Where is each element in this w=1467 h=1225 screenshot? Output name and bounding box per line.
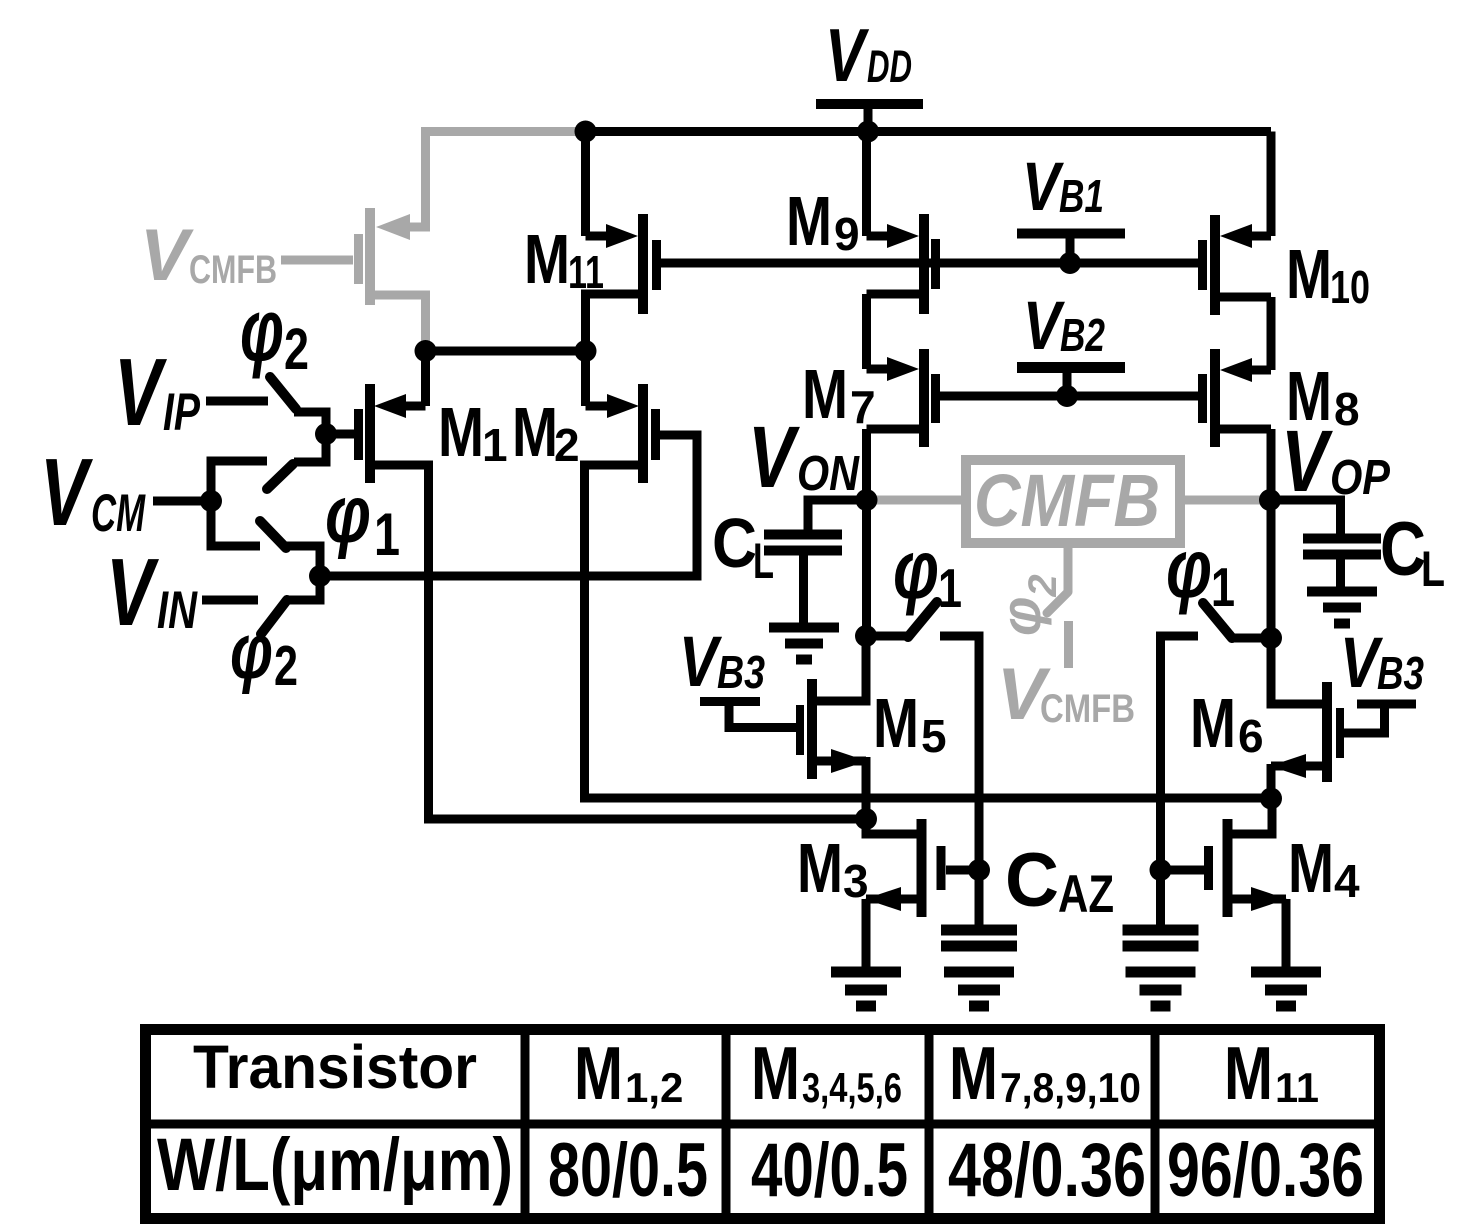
svg-text:CMFB: CMFB xyxy=(974,459,1160,542)
svg-text:1: 1 xyxy=(482,419,508,471)
wire CMFB block bottom lead (gray) xyxy=(1064,543,1073,592)
table row separator xyxy=(145,1120,1380,1129)
node VB1 junction xyxy=(1059,252,1081,274)
wire node A (phi2 output to M1 gate) xyxy=(294,412,326,462)
svg-text:φ: φ xyxy=(893,522,939,616)
svg-text:10: 10 xyxy=(1330,261,1370,313)
svg-text:M: M xyxy=(873,684,919,762)
svg-text:M: M xyxy=(797,829,843,907)
node source rail right junction xyxy=(1260,788,1282,810)
transistor M2 xyxy=(586,384,661,483)
transistor MCMFB (gray tail device) xyxy=(354,208,426,344)
svg-text:4: 4 xyxy=(1334,855,1360,907)
svg-text:M: M xyxy=(512,393,558,471)
svg-text:3: 3 xyxy=(843,855,869,907)
svg-text:M: M xyxy=(524,220,570,298)
svg-text:IN: IN xyxy=(157,581,198,640)
wire M4 drain jog from source rail xyxy=(1232,798,1272,834)
node A (M1 gate) junction xyxy=(315,423,337,445)
svg-text:M: M xyxy=(1286,357,1332,435)
node VON junction xyxy=(856,489,878,511)
svg-text:DD: DD xyxy=(867,41,912,92)
node CAZ left junction xyxy=(968,859,990,881)
wire phi1 left fixed contact down to CAZ node xyxy=(940,636,979,927)
svg-text:7,8,9,10: 7,8,9,10 xyxy=(1000,1064,1141,1111)
svg-text:C: C xyxy=(712,504,757,582)
transistor M7 xyxy=(867,349,941,447)
svg-text:W/L(μm/μm): W/L(μm/μm) xyxy=(157,1123,513,1206)
power VDD supply symbol xyxy=(816,99,923,128)
ground (M4 source) xyxy=(1251,967,1321,1012)
ground (left CAZ) xyxy=(944,967,1014,1012)
transistor M3 xyxy=(865,819,946,917)
svg-text:φ: φ xyxy=(1166,521,1212,615)
wire CMFB block left lead (gray) to VON xyxy=(866,496,966,505)
svg-text:8: 8 xyxy=(1334,383,1360,435)
wire VDD rail xyxy=(586,127,1272,136)
svg-text:OP: OP xyxy=(1330,451,1390,505)
svg-text:11: 11 xyxy=(1275,1064,1319,1111)
wire M5 source to autozero node xyxy=(862,757,871,824)
node VON-phi1 junction xyxy=(855,625,877,647)
transistor M8 xyxy=(1198,349,1271,447)
ground (right CL) xyxy=(1307,587,1377,629)
switch phi2 (gray, vertical) lever xyxy=(1047,592,1068,613)
svg-text:M: M xyxy=(949,1031,998,1115)
node B (M2 gate line) junction xyxy=(309,565,331,587)
wire tail node (M11 drain to MCMFB drain, sources of M1/M2) xyxy=(426,347,586,356)
switch phi2 (VIN) lever xyxy=(261,600,287,634)
svg-text:M: M xyxy=(438,393,484,471)
wire M4 source to ground xyxy=(1282,899,1291,968)
svg-text:φ: φ xyxy=(325,469,371,560)
transistor M4 xyxy=(1204,819,1287,917)
wire M3 source to ground xyxy=(862,899,871,968)
node VDD junction xyxy=(857,121,879,143)
node CAZ right junction xyxy=(1150,859,1172,881)
svg-text:V: V xyxy=(106,539,159,646)
switch phi1 (VCM upper) lever xyxy=(267,464,293,489)
svg-text:V: V xyxy=(825,13,870,97)
table column separator 3 xyxy=(925,1029,934,1219)
wire VOP node down to phi1 node and M6 drain xyxy=(1267,500,1276,642)
svg-text:1,2: 1,2 xyxy=(625,1064,683,1111)
table frame xyxy=(146,1030,1380,1219)
svg-text:M: M xyxy=(786,182,832,260)
svg-text:ON: ON xyxy=(797,447,860,501)
switch phi1 (VCM lower) lever xyxy=(260,521,286,548)
svg-text:B1: B1 xyxy=(1059,170,1104,222)
wire M8 drain to VOP node xyxy=(1267,429,1276,505)
capacitor CL (left) xyxy=(764,530,842,625)
svg-text:CM: CM xyxy=(91,484,146,543)
svg-text:AZ: AZ xyxy=(1058,865,1114,924)
svg-text:7: 7 xyxy=(850,381,876,433)
wire M7 drain to VON node xyxy=(862,429,871,505)
svg-text:V: V xyxy=(140,215,194,296)
node VOP-phi1 junction xyxy=(1260,627,1282,649)
wire M1 gate xyxy=(326,430,354,439)
wire M9 drain to M7 source xyxy=(862,294,871,369)
svg-text:Transistor: Transistor xyxy=(193,1033,477,1101)
svg-text:11: 11 xyxy=(568,246,604,298)
wire M7/M8 gate line to VB2 xyxy=(936,392,1202,401)
wire M11/M9 gate line to VB1 and M10 gate xyxy=(656,259,1202,268)
svg-text:V: V xyxy=(114,339,167,446)
power VB1 supply symbol xyxy=(1017,229,1125,257)
wire M2 drain down to source rail xyxy=(585,465,1268,798)
transistor M6 xyxy=(1270,682,1344,782)
wire VIN input lead xyxy=(202,596,258,605)
wire gray source from VDD rail to CMFB transistor xyxy=(403,132,584,228)
wire node B (phi1 output down to VIN line) xyxy=(285,546,320,600)
wire M5 drain up to phi1 node xyxy=(814,636,866,701)
wire VB3 left to M5 gate xyxy=(700,697,760,706)
svg-text:40/0.5: 40/0.5 xyxy=(751,1128,908,1213)
node tail right junction xyxy=(575,340,597,362)
wire M10 drain to M8 source xyxy=(1267,297,1276,370)
wire M2 source from tail xyxy=(581,351,590,406)
transistor M5 xyxy=(796,679,867,779)
wire VCM input lead xyxy=(153,497,211,506)
svg-text:5: 5 xyxy=(921,710,947,762)
wire M6 source to source rail xyxy=(1267,764,1276,803)
svg-text:φ: φ xyxy=(240,280,284,379)
node VCM junction xyxy=(200,490,222,512)
svg-text:M: M xyxy=(1224,1031,1273,1115)
wire M3 drain jog from autozero node xyxy=(866,819,917,834)
wire VCMFB gate lead (gray) xyxy=(281,256,353,265)
svg-text:1: 1 xyxy=(374,501,400,568)
wire VON node down to phi1 node and M5 drain xyxy=(862,500,871,640)
svg-text:2: 2 xyxy=(554,419,580,471)
switch phi1 (VOP autozero) lever xyxy=(1203,603,1232,638)
wire M3 gate to CAZ xyxy=(946,866,979,875)
table column separator 2 xyxy=(722,1029,731,1219)
svg-text:80/0.5: 80/0.5 xyxy=(548,1128,708,1213)
wire right phi1 stub from VOP column xyxy=(1232,634,1271,643)
capacitor CAZ (left) xyxy=(941,925,1017,952)
wire VON node to CL xyxy=(808,500,867,532)
capacitor CAZ (right) xyxy=(1123,925,1199,952)
wire VIP input lead xyxy=(206,397,268,406)
transistor M1 xyxy=(354,384,426,483)
ground (left CL) xyxy=(769,623,839,665)
svg-text:2: 2 xyxy=(284,317,309,382)
node tail left junction xyxy=(415,340,437,362)
node VB2 junction xyxy=(1056,385,1078,407)
switch phi1 (VON autozero) lever xyxy=(908,602,937,637)
svg-text:B3: B3 xyxy=(1377,647,1424,699)
node VOP junction xyxy=(1259,489,1281,511)
svg-text:9: 9 xyxy=(834,208,860,260)
svg-text:B2: B2 xyxy=(1060,309,1105,361)
svg-text:V: V xyxy=(748,409,801,506)
wire phi1 right fixed contact down to CAZ node xyxy=(1161,636,1199,927)
svg-text:L: L xyxy=(1421,541,1445,597)
svg-text:M: M xyxy=(574,1031,623,1115)
node autozero left junction xyxy=(855,808,877,830)
ground (M3 source) xyxy=(831,967,901,1012)
wire VCM branch xyxy=(211,461,267,546)
wire input line B to M2 gate xyxy=(320,435,697,576)
wire CMFB block right lead (gray) to VOP xyxy=(1180,496,1270,505)
table column separator 4 xyxy=(1151,1029,1160,1219)
table column separator 1 xyxy=(521,1029,530,1219)
svg-text:C: C xyxy=(1380,507,1426,592)
transistor M11 xyxy=(586,132,662,352)
transistor M9 xyxy=(867,132,941,315)
wire VOP node to CL xyxy=(1270,500,1341,536)
svg-text:M: M xyxy=(1288,829,1334,907)
switch phi2 (VIP) lever xyxy=(270,377,296,409)
svg-text:B3: B3 xyxy=(717,646,765,698)
svg-text:M: M xyxy=(802,355,848,433)
node M11 source junction xyxy=(575,121,597,143)
wire M1 source from tail xyxy=(421,351,430,406)
svg-text:2: 2 xyxy=(274,634,298,698)
svg-text:CMFB: CMFB xyxy=(1040,687,1135,731)
svg-text:M: M xyxy=(1190,684,1236,762)
svg-text:M: M xyxy=(751,1031,800,1115)
svg-text:96/0.36: 96/0.36 xyxy=(1167,1128,1364,1213)
svg-text:φ: φ xyxy=(230,607,273,695)
wire M6 drain up to phi1 node xyxy=(1271,638,1324,704)
svg-text:V: V xyxy=(1022,148,1064,225)
svg-text:V: V xyxy=(1023,287,1065,364)
transistor M10 xyxy=(1198,132,1271,316)
capacitor CL (right) xyxy=(1303,534,1381,589)
wire M4 gate to CAZ xyxy=(1161,866,1205,875)
svg-text:3,4,5,6: 3,4,5,6 xyxy=(802,1064,902,1111)
wire VB3 right to M6 gate xyxy=(1357,700,1416,709)
wire M1 drain down to M3 gate line xyxy=(369,465,861,819)
op-amp block CMFB (gray box) xyxy=(966,460,1180,543)
svg-text:48/0.36: 48/0.36 xyxy=(948,1128,1146,1213)
switch phi2 (gray) fixed contact stub xyxy=(1064,621,1073,668)
power VB2 supply symbol xyxy=(1017,362,1125,390)
svg-text:IP: IP xyxy=(163,383,200,442)
wire left phi1 stub from VON column xyxy=(866,632,908,641)
svg-text:L: L xyxy=(753,533,774,589)
svg-text:1: 1 xyxy=(938,557,962,619)
svg-text:1: 1 xyxy=(1211,556,1235,618)
svg-text:M: M xyxy=(1286,235,1332,313)
svg-text:C: C xyxy=(1005,838,1059,923)
svg-text:6: 6 xyxy=(1238,710,1264,762)
svg-text:V: V xyxy=(40,439,93,546)
ground (right CAZ) xyxy=(1126,967,1196,1012)
